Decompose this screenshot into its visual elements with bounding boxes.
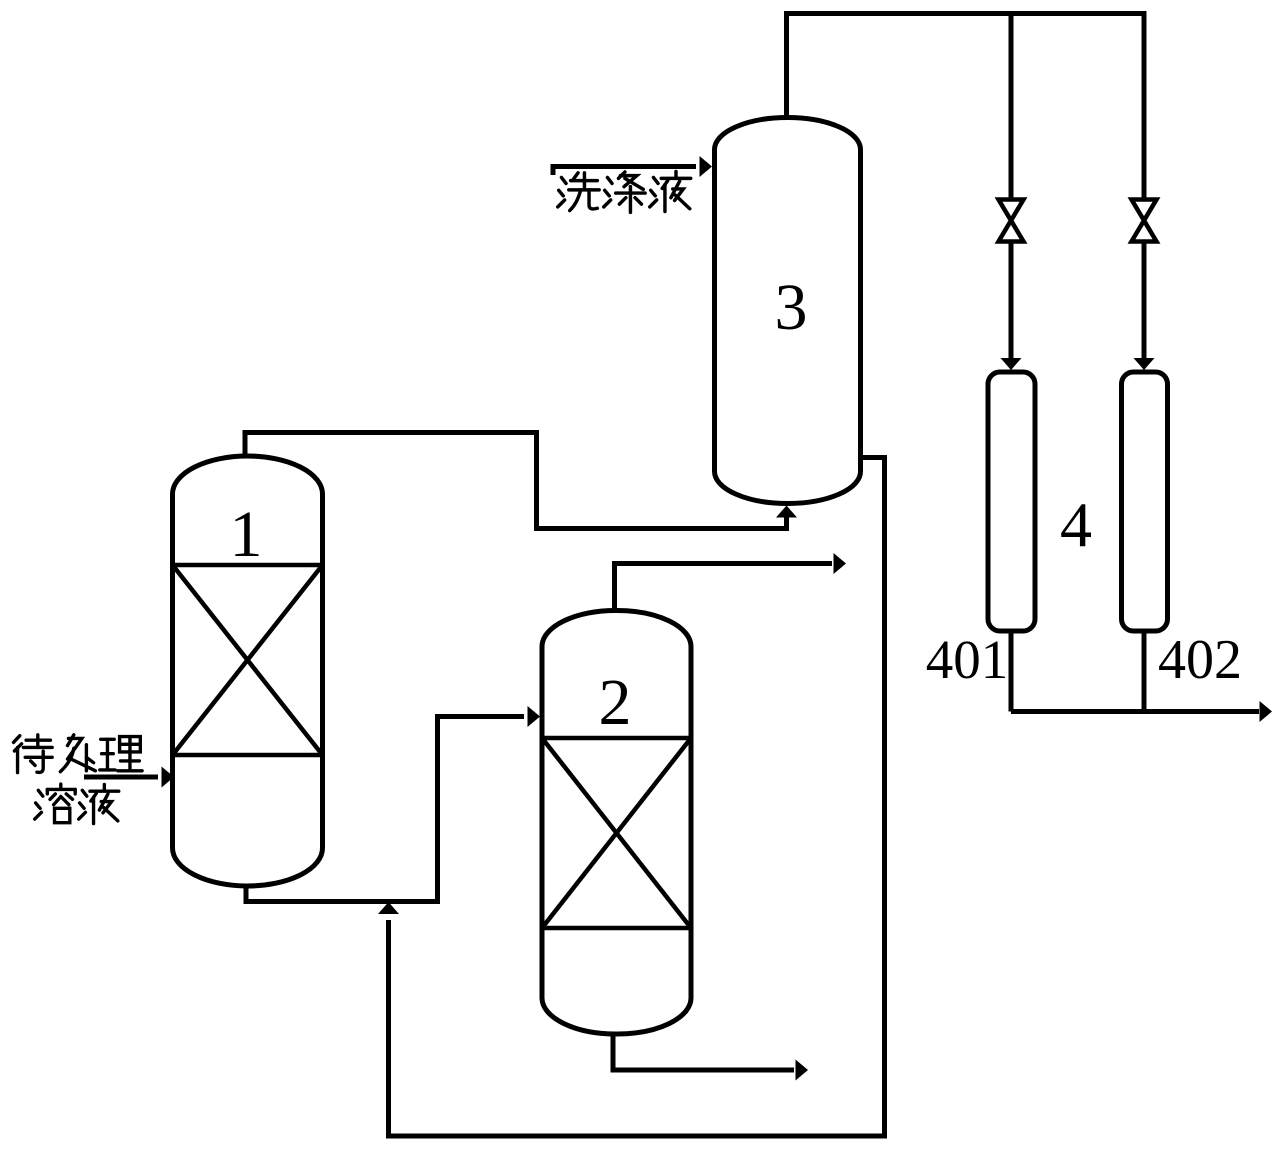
packing top line vessel 1: [173, 563, 323, 568]
wire: combined product line to right edge: [1011, 709, 1259, 714]
wire: valve V1 outlet down to column 401: [1009, 242, 1014, 361]
wire: valve V2 outlet down to column 402: [1142, 242, 1147, 361]
arrowhead into vessel 2: [528, 706, 541, 727]
vessel 1 (packed column): [173, 456, 323, 886]
column 402 (adsorption cartridge): [1122, 372, 1168, 631]
text 溶液 (solution): [35, 784, 119, 824]
vessel 2 (packed column): [542, 611, 691, 1035]
packing diagonal \ vessel 2: [542, 738, 691, 928]
arrowhead into column 402: [1134, 358, 1155, 370]
text 洗涤液 (wash liquid): [558, 171, 691, 212]
arrowhead up into vessel 3 bottom: [776, 506, 797, 518]
svg-text:2: 2: [599, 666, 632, 739]
svg-text:1: 1: [230, 498, 263, 571]
wire: column 401 bottom outlet: [1009, 631, 1014, 712]
column 401 (adsorption cartridge): [988, 372, 1035, 631]
wire: column 402 bottom outlet: [1142, 631, 1147, 712]
char 液: [79, 784, 119, 823]
valve V2 (bowtie): [1132, 200, 1157, 242]
wire: feed inlet to vessel 1: [84, 775, 158, 780]
wire: vessel 1 overhead line to vessel 3 bottom: [245, 433, 787, 529]
char 涤: [604, 172, 645, 212]
packing diagonal \ vessel 1: [173, 565, 323, 755]
valve V1 (bowtie): [999, 200, 1024, 242]
vessel 3 (wash column): [715, 118, 861, 504]
arrowhead into vessel 3: [700, 156, 713, 177]
char 溶: [35, 784, 76, 823]
packing top line vessel 2: [542, 736, 691, 741]
wire: vessel 2 overhead outlet: [615, 564, 833, 612]
packing bottom line vessel 2: [542, 926, 691, 931]
arrowhead product line: [1260, 701, 1273, 722]
svg-text:402: 402: [1158, 629, 1242, 691]
char 理: [100, 737, 142, 771]
svg-text:3: 3: [775, 271, 808, 344]
arrowhead vessel 2 overhead: [834, 553, 847, 574]
char 待: [14, 735, 53, 773]
char 液: [650, 171, 691, 211]
arrowhead up into vessel1-vessel2 transfer line: [378, 902, 399, 914]
arrowhead vessel 2 bottom: [796, 1060, 809, 1081]
char 洗: [558, 173, 599, 211]
char 处: [60, 735, 95, 772]
svg-text:401: 401: [926, 629, 1009, 690]
arrowhead into column 401: [1001, 358, 1022, 370]
wire: branch down to valve V1: [1009, 14, 1014, 200]
packing bottom line vessel 1: [173, 753, 323, 758]
wire: vessel 1 bottoms to vessel 2 inlet: [246, 717, 524, 902]
wire: top header pipe from vessel 3 riser, across, down to valve V2: [787, 14, 1145, 200]
text 待处理 (to be treated): [14, 735, 143, 773]
arrowhead into vessel 1: [162, 767, 175, 788]
wire: vessel 3 bottoms recycle loop (right side, bottom, up arrow): [389, 458, 885, 1137]
packing diagonal / vessel 2: [542, 738, 691, 928]
svg-text:4: 4: [1060, 489, 1092, 560]
wire: vessel 2 bottom outlet: [613, 1034, 794, 1070]
packing diagonal / vessel 1: [173, 565, 323, 755]
wire: wash liquid inlet with start tick: [553, 167, 696, 176]
